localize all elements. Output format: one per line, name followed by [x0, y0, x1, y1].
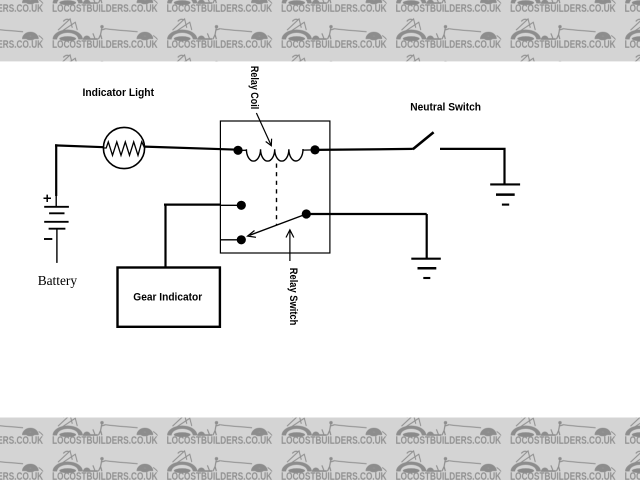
svg-text:Relay Switch: Relay Switch: [287, 268, 299, 326]
svg-text:Neutral Switch: Neutral Switch: [410, 102, 481, 114]
svg-text:Battery: Battery: [38, 273, 77, 288]
svg-text:Relay Coil: Relay Coil: [248, 66, 260, 109]
svg-text:Gear Indicator: Gear Indicator: [133, 292, 203, 304]
svg-text:Indicator Light: Indicator Light: [83, 87, 155, 99]
